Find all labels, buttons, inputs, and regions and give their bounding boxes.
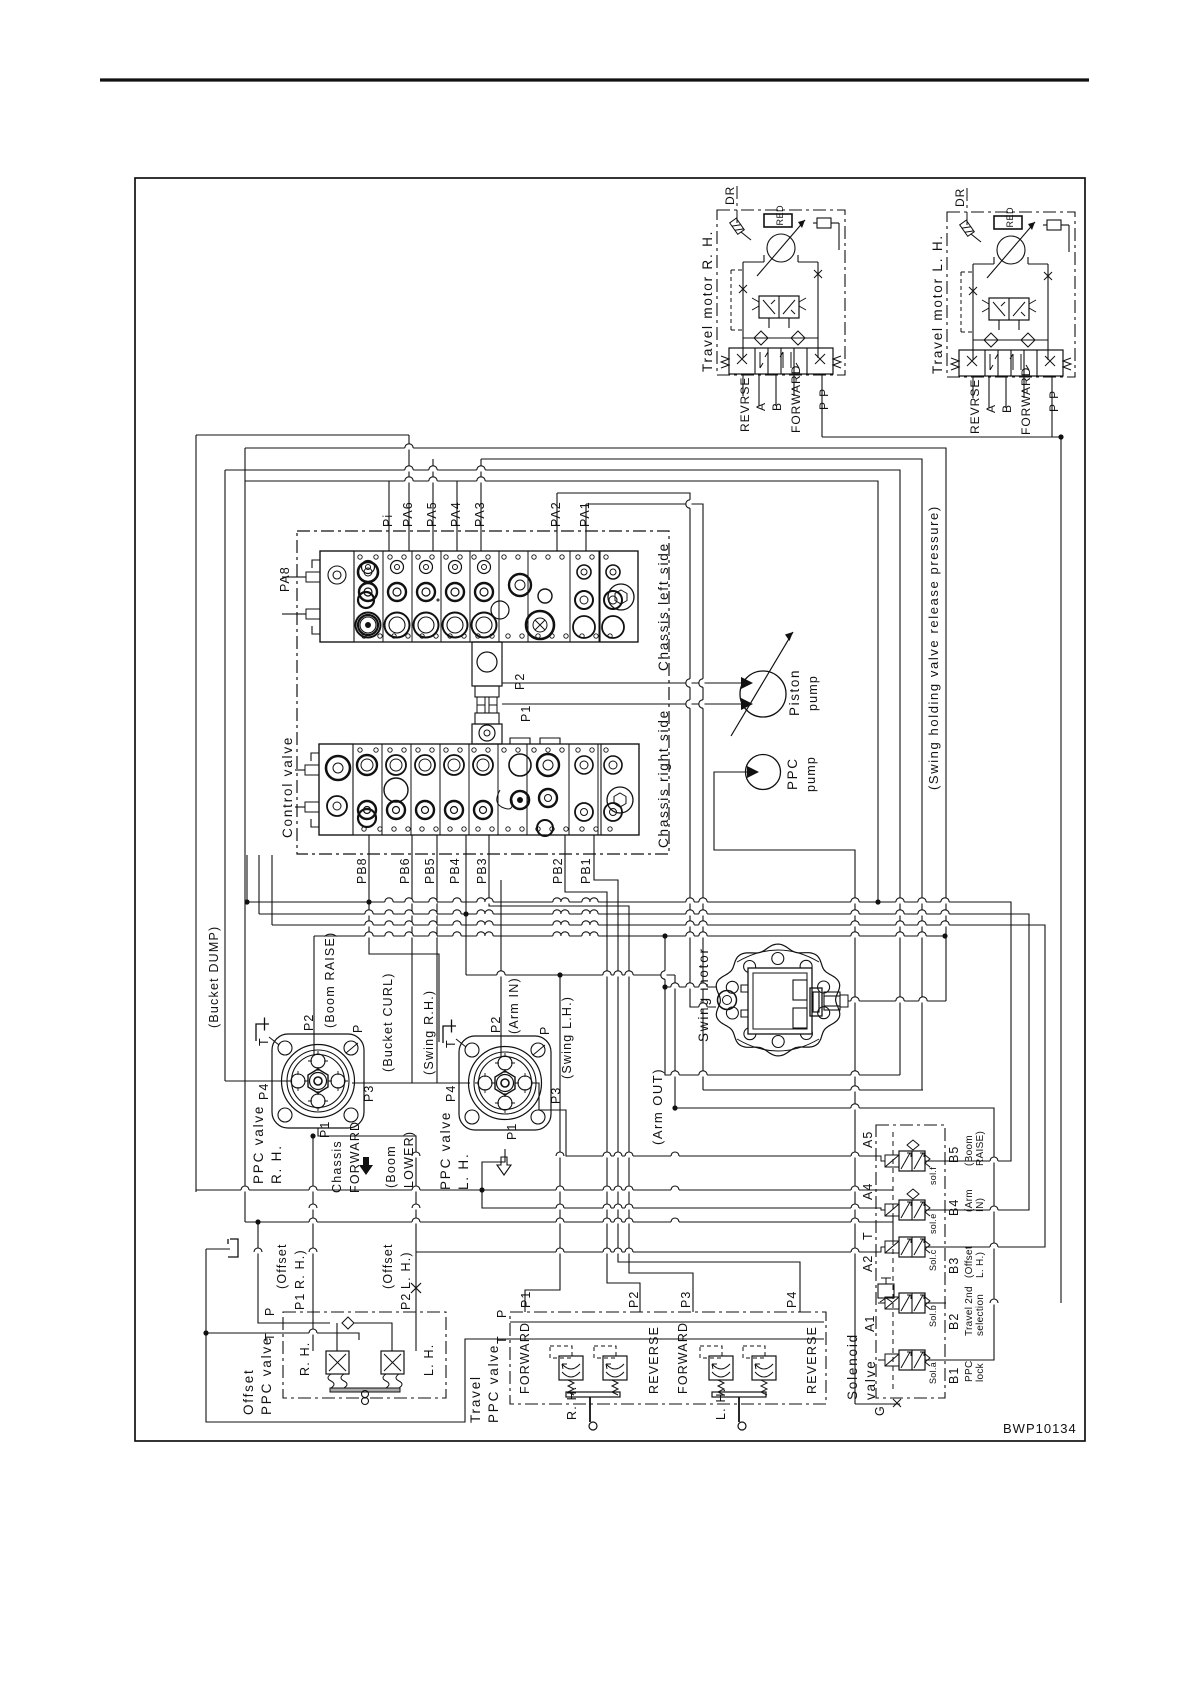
- wire PB8 drop to PPC L.H. lever: [369, 835, 439, 1042]
- wire PP bus horizontal: [822, 436, 1061, 438]
- svg-text:Travel motor R. H.: Travel motor R. H.: [700, 230, 715, 372]
- svg-text:PA5: PA5: [425, 501, 439, 527]
- svg-text:(Boom: (Boom: [964, 1135, 975, 1166]
- svg-text:P3: P3: [362, 1085, 376, 1102]
- svg-text:P1: P1: [293, 1293, 307, 1310]
- svg-text:A: A: [754, 402, 768, 411]
- svg-text:T: T: [444, 1039, 458, 1048]
- control valve port PA8: [282, 576, 296, 578]
- svg-text:PA3: PA3: [473, 501, 487, 527]
- svg-text:LOWER): LOWER): [402, 1131, 416, 1188]
- wire right riser 3: [225, 470, 900, 1075]
- svg-text:(Swing holding valve release p: (Swing holding valve release pressure): [926, 505, 941, 790]
- svg-text:PA6: PA6: [401, 501, 415, 527]
- svg-text:PPC: PPC: [785, 757, 800, 790]
- svg-text:lock: lock: [975, 1362, 986, 1382]
- wire Arm IN riser: [500, 880, 502, 1058]
- wire R.H. PP down: [821, 375, 823, 437]
- control valve enclosure: [297, 531, 669, 854]
- control valve port block P2: [472, 642, 502, 686]
- wire offset P1 riser: [312, 1136, 314, 1351]
- wire PA6 line: [196, 434, 409, 436]
- svg-text:P2: P2: [513, 673, 527, 690]
- svg-text:P1: P1: [519, 705, 533, 722]
- wire PB2 to travel PPC P2: [565, 835, 640, 1312]
- wire L.H. PP down: [1051, 377, 1053, 437]
- svg-text:P P: P P: [1047, 390, 1061, 412]
- wire PA3 line: [480, 459, 482, 551]
- svg-text:P1: P1: [318, 1121, 332, 1138]
- svg-text:P P: P P: [817, 388, 831, 410]
- svg-text:Travel 2nd: Travel 2nd: [964, 1286, 975, 1336]
- svg-text:P1: P1: [505, 1123, 519, 1140]
- svg-text:B5: B5: [947, 1146, 961, 1163]
- wire PB1 to travel PPC P4: [594, 835, 800, 1312]
- svg-text:Pi: Pi: [381, 514, 395, 527]
- travel PPC valve enclosure: [510, 1312, 826, 1404]
- solenoid A-port jogs: [876, 1156, 885, 1161]
- wire tank riser and T feed: [206, 1248, 230, 1250]
- wire to travel PPC P1: [466, 974, 675, 976]
- svg-text:selection: selection: [975, 1294, 986, 1336]
- wire riser to A2 line: [245, 1221, 876, 1223]
- solenoid valve Sol.b B2: [899, 1293, 925, 1313]
- wire P2 to piston pump: [502, 682, 741, 684]
- svg-text:P2: P2: [627, 1291, 641, 1308]
- wire Arm OUT riser to B1: [674, 975, 676, 1108]
- svg-text:P3: P3: [549, 1087, 563, 1104]
- svg-text:G: G: [873, 1405, 887, 1416]
- svg-text:PA8: PA8: [278, 566, 292, 592]
- svg-text:L. H.: L. H.: [714, 1388, 728, 1420]
- svg-text:PB3: PB3: [475, 857, 489, 884]
- svg-text:DR: DR: [953, 188, 967, 207]
- svg-text:PB8: PB8: [355, 857, 369, 884]
- svg-text:IN): IN): [975, 1198, 986, 1212]
- svg-text:T: T: [861, 1231, 875, 1240]
- PPC pump: [746, 755, 781, 790]
- svg-text:PA1: PA1: [578, 501, 592, 527]
- wire left riser (Bucket DUMP): [195, 435, 197, 1192]
- line hop marks: [241, 444, 998, 1333]
- offset internal piping: [290, 1322, 330, 1324]
- solenoid valve enclosure: [876, 1125, 945, 1398]
- svg-text:Chassis right side: Chassis right side: [656, 709, 671, 848]
- solenoid valve sol.f B5: [899, 1151, 925, 1171]
- wire PB5 to PPC R.H. P3: [352, 835, 437, 1083]
- svg-text:B3: B3: [947, 1257, 961, 1274]
- svg-text:B: B: [770, 402, 784, 411]
- svg-text:(Swing L.H.): (Swing L.H.): [560, 996, 574, 1079]
- wire swing lower link 2: [703, 1089, 923, 1091]
- svg-text:PPC valve: PPC valve: [251, 1105, 266, 1184]
- travel valve section P2: [603, 1356, 627, 1380]
- svg-text:FORWARD: FORWARD: [348, 1121, 362, 1193]
- svg-text:PA2: PA2: [549, 501, 563, 527]
- svg-text:(Offset: (Offset: [381, 1243, 395, 1289]
- wire PA2 to swing motor port: [556, 493, 558, 551]
- swing motor: [716, 944, 848, 1056]
- svg-text:P: P: [538, 1026, 552, 1035]
- wire bus D: [314, 935, 945, 937]
- control valve port block P1: [477, 705, 485, 713]
- travel valve section P3: [709, 1356, 733, 1380]
- wire left riser 2: [244, 448, 246, 1222]
- svg-text:L. H.): L. H.): [975, 1252, 986, 1278]
- svg-text:Chassis left side: Chassis left side: [656, 542, 671, 671]
- wire PB6 to PPC L.H. P4: [412, 835, 470, 1083]
- svg-text:Sol.b: Sol.b: [928, 1305, 938, 1327]
- svg-text:REVRSE: REVRSE: [738, 377, 752, 432]
- svg-text:Piston: Piston: [787, 669, 802, 716]
- wire offset P: [258, 1222, 290, 1323]
- wire right riser 2: [481, 459, 922, 1090]
- travel motor R.H. block: [717, 205, 845, 406]
- svg-text:P1: P1: [519, 1291, 533, 1308]
- svg-text:REVRSE: REVRSE: [968, 379, 982, 434]
- svg-text:Sol.a: Sol.a: [928, 1362, 938, 1384]
- svg-text:B2: B2: [947, 1313, 961, 1330]
- outline arrow: [497, 1157, 511, 1175]
- wire bus A: [247, 902, 1011, 1161]
- solenoid valve Sol.a B1: [899, 1350, 925, 1370]
- svg-text:sol.f: sol.f: [928, 1167, 938, 1185]
- travel motor L.H. DR drain line: [966, 188, 968, 228]
- svg-text:pump: pump: [804, 756, 818, 792]
- svg-text:valve: valve: [863, 1359, 878, 1400]
- svg-text:REVERSE: REVERSE: [647, 1326, 661, 1394]
- wire PB3 to travel PPC P3: [489, 835, 693, 1312]
- PPC valve L.H.: [443, 1020, 551, 1131]
- svg-text:PB2: PB2: [551, 857, 565, 884]
- svg-text:A1: A1: [863, 1315, 877, 1332]
- svg-text:L. H.: L. H.: [422, 1344, 436, 1376]
- svg-text:P: P: [495, 1309, 509, 1318]
- travel valve section P1: [559, 1356, 583, 1380]
- svg-text:PB4: PB4: [448, 857, 462, 884]
- svg-text:L. H.: L. H.: [456, 1152, 471, 1190]
- wire PPC L.H. P1 to solenoid: [482, 1149, 876, 1208]
- svg-text:B1: B1: [947, 1367, 961, 1384]
- svg-text:R. H.): R. H.): [293, 1249, 307, 1289]
- control valve bank chassis-left-side: [296, 551, 638, 642]
- wire Pi pilot line: [245, 480, 389, 482]
- PPC valve R.H.: [256, 1018, 364, 1129]
- svg-text:FORWARD: FORWARD: [518, 1322, 532, 1394]
- svg-text:(Arm: (Arm: [964, 1189, 975, 1212]
- svg-text:(Swing R.H.): (Swing R.H.): [422, 990, 436, 1075]
- wire bus B: [259, 914, 1029, 1210]
- svg-text:(Arm OUT): (Arm OUT): [650, 1068, 665, 1145]
- svg-text:(Offset: (Offset: [275, 1243, 289, 1289]
- pressure reducing valve: [878, 1284, 894, 1298]
- svg-text:T: T: [263, 1332, 277, 1341]
- svg-text:T: T: [257, 1037, 271, 1046]
- wire bus C: [272, 925, 1045, 1247]
- wire PA5 line: [432, 459, 434, 551]
- svg-text:(Bucket DUMP): (Bucket DUMP): [207, 926, 221, 1028]
- solenoid valve Sol.c B3: [899, 1237, 925, 1257]
- svg-text:BWP10134: BWP10134: [1003, 1421, 1077, 1436]
- svg-text:(Boom: (Boom: [384, 1145, 398, 1188]
- svg-text:A2: A2: [861, 1255, 875, 1272]
- svg-text:RED: RED: [775, 205, 785, 226]
- svg-text:FORWARD: FORWARD: [789, 365, 803, 433]
- svg-text:P4: P4: [444, 1085, 458, 1102]
- travel motor R.H. DR drain line: [736, 186, 738, 226]
- svg-text:Sol.c: Sol.c: [928, 1249, 938, 1271]
- svg-text:R. H.: R. H.: [269, 1144, 284, 1184]
- svg-text:P2: P2: [489, 1016, 503, 1033]
- junction PP bus: [1058, 434, 1063, 439]
- tank symbol: [228, 1239, 238, 1257]
- svg-text:(Arm IN): (Arm IN): [507, 977, 521, 1034]
- svg-text:B4: B4: [947, 1199, 961, 1216]
- solenoid internal gallery line: [892, 1132, 894, 1392]
- wire swing motor port link: [665, 986, 716, 988]
- svg-text:(Offset: (Offset: [964, 1246, 975, 1278]
- solid arrow chassis forward: [359, 1157, 373, 1175]
- svg-text:L. H.): L. H.): [399, 1251, 413, 1289]
- svg-text:PA4: PA4: [449, 501, 463, 527]
- svg-text:PB1: PB1: [579, 857, 593, 884]
- svg-text:PB5: PB5: [423, 857, 437, 884]
- travel pedal R.H.: [566, 1392, 620, 1397]
- page header rule: [100, 78, 1089, 81]
- svg-text:RAISE): RAISE): [975, 1131, 986, 1166]
- svg-text:PPC valve: PPC valve: [486, 1344, 501, 1423]
- wire PPC R.H. P1 to offset P2 and solenoid A2: [318, 1128, 416, 1351]
- svg-text:PPC valve: PPC valve: [259, 1336, 274, 1415]
- travel valve section P4: [752, 1356, 776, 1380]
- control valve bank chassis-right-side: [295, 738, 639, 836]
- svg-text:Offset: Offset: [241, 1368, 256, 1415]
- wire T line long (to solenoid): [196, 1189, 876, 1191]
- wire PA4 line: [456, 481, 458, 551]
- wire swing motor output: [848, 1000, 946, 1002]
- svg-text:(Bucket CURL): (Bucket CURL): [381, 972, 395, 1072]
- svg-text:Solenoid: Solenoid: [845, 1333, 860, 1400]
- wire right riser 4: [245, 481, 878, 902]
- svg-text:FORWARD: FORWARD: [1019, 367, 1033, 435]
- wire PA1 riser: [585, 504, 587, 551]
- svg-text:P: P: [263, 1307, 277, 1316]
- travel motor L.H. block: [947, 207, 1075, 408]
- wire PPC L.H. P3 to solenoid A4: [533, 1083, 876, 1156]
- wire swing lower link 1: [665, 936, 900, 1075]
- svg-text:(Boom RAISE): (Boom RAISE): [323, 932, 337, 1028]
- travel internal piping: [510, 1321, 824, 1323]
- wire PP bus to solenoid B2: [1060, 437, 1062, 1303]
- offset PPC valve enclosure: [283, 1312, 446, 1398]
- offset valve R.H. section: [326, 1351, 349, 1374]
- svg-text:RED: RED: [1005, 207, 1015, 228]
- diagram border frame: [135, 178, 1085, 1441]
- svg-text:sol.e: sol.e: [928, 1213, 938, 1234]
- svg-text:P2: P2: [302, 1014, 316, 1031]
- svg-text:P4: P4: [785, 1291, 799, 1308]
- wire PB4 drop to bus B: [465, 835, 467, 914]
- svg-text:A: A: [984, 404, 998, 413]
- svg-text:R. H.: R. H.: [565, 1386, 579, 1420]
- svg-text:Control valve: Control valve: [280, 736, 295, 838]
- wire offset T: [206, 1333, 359, 1340]
- wire right riser 1 to swing motor: [245, 448, 946, 1001]
- svg-text:PPC valve: PPC valve: [438, 1111, 453, 1190]
- svg-text:A5: A5: [861, 1131, 875, 1148]
- offset pedal bar: [330, 1388, 400, 1392]
- svg-text:T: T: [495, 1335, 509, 1344]
- svg-text:Travel motor L. H.: Travel motor L. H.: [930, 234, 945, 374]
- svg-text:P: P: [351, 1024, 365, 1033]
- svg-text:FORWARD: FORWARD: [676, 1322, 690, 1394]
- svg-text:PPC: PPC: [964, 1361, 975, 1382]
- svg-text:REVERSE: REVERSE: [805, 1326, 819, 1394]
- svg-text:R. H.: R. H.: [298, 1342, 312, 1376]
- svg-text:P2: P2: [399, 1293, 413, 1310]
- svg-text:PB6: PB6: [398, 857, 412, 884]
- svg-text:Chassis: Chassis: [330, 1140, 344, 1193]
- svg-text:P3: P3: [679, 1291, 693, 1308]
- svg-text:P4: P4: [257, 1083, 271, 1100]
- offset valve L.H. section: [381, 1351, 404, 1374]
- piston pump: [740, 671, 786, 717]
- svg-text:Travel: Travel: [468, 1375, 483, 1423]
- svg-text:pump: pump: [806, 675, 820, 711]
- wire PPC pump supply: [714, 772, 855, 1404]
- wire to PPC R.H. P2: [313, 936, 315, 1056]
- wire G supply: [855, 1403, 900, 1405]
- svg-text:DR: DR: [723, 186, 737, 205]
- svg-text:A4: A4: [861, 1183, 875, 1200]
- solenoid valve sol.e B4: [899, 1200, 925, 1220]
- wire P1 to piston pump: [502, 703, 741, 705]
- travel pedal L.H.: [712, 1392, 766, 1397]
- wire left riser to PPC R.H. P4: [224, 470, 226, 1081]
- svg-text:B: B: [1000, 404, 1014, 413]
